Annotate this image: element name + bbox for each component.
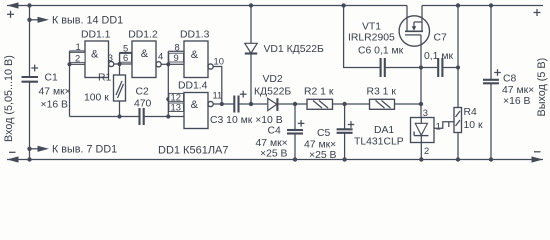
node top rail input (27, 3, 31, 7)
pin 2 lead with label box (70, 52, 86, 64)
node gate junction on C6 line (419, 65, 423, 69)
svg-text:11: 11 (213, 90, 223, 101)
capacitor C6 (381, 58, 421, 77)
pin 3 output bubble (109, 61, 114, 66)
svg-text:VT1: VT1 (362, 22, 381, 33)
svg-text:Выход (5 В): Выход (5 В) (536, 58, 548, 117)
transistor VT1 (399, 6, 429, 68)
svg-text:9: 9 (174, 52, 179, 63)
svg-text:×16 В: ×16 В (503, 96, 531, 107)
node branch to pin 14 (27, 18, 31, 22)
node R1 top junction (117, 62, 121, 66)
node R4 bottom (456, 157, 460, 161)
capacitor C2 (140, 108, 144, 125)
svg-text:К выв. 14 DD1: К выв. 14 DD1 (52, 14, 123, 26)
resistor R4 trimmer (454, 108, 462, 160)
svg-text:C4: C4 (268, 126, 282, 137)
node bottom rail input (27, 157, 31, 161)
node pins 1-2 tie (67, 62, 71, 66)
node VD1 top rail (249, 3, 253, 7)
svg-text:IRLR2905: IRLR2905 (348, 33, 395, 44)
svg-text:TL431CLP: TL431CLP (354, 137, 404, 148)
node C6 top rail (341, 3, 345, 7)
svg-text:47 мк×: 47 мк× (304, 140, 336, 151)
pin 1 lead (70, 50, 86, 52)
svg-text:1: 1 (76, 41, 81, 52)
diode VD2 (268, 98, 307, 111)
pin 6 label box (120, 52, 132, 63)
svg-text:&: & (191, 99, 199, 111)
node C7 right junction (456, 65, 460, 69)
svg-text:DD1.1: DD1.1 (81, 29, 111, 40)
svg-text:DD1.2: DD1.2 (128, 29, 158, 40)
svg-text:6: 6 (123, 52, 128, 63)
svg-text:С6 0,1 мк: С6 0,1 мк (358, 46, 404, 57)
wire bottom rail (7, 156, 543, 162)
node R4 top rail (456, 3, 460, 7)
node gate-R3 junction (419, 102, 423, 106)
wire top rail left segment with input arrow (7, 2, 407, 8)
wire arrow to pin 7 DD1 (30, 146, 50, 152)
node C8 bottom (489, 157, 493, 161)
svg-text:R1: R1 (98, 73, 112, 84)
svg-text:К выв. 7 DD1: К выв. 7 DD1 (52, 144, 117, 156)
plus sign input top-left (7, 11, 14, 18)
svg-text:47 мк×: 47 мк× (502, 85, 534, 96)
minus sign bottom-left (9, 151, 16, 153)
node C4 bottom (293, 157, 297, 161)
svg-text:&: & (91, 48, 99, 60)
gate DD1.4 (178, 81, 208, 129)
wire top rail right segment with output arrow (422, 5, 543, 7)
capacitor C7 (421, 58, 458, 77)
pin 5 lead (120, 43, 133, 65)
diode VD1 (245, 6, 257, 105)
svg-text:470: 470 (134, 99, 152, 110)
svg-text:13: 13 (171, 101, 181, 112)
wire DA1 cathode pin 2 (420, 143, 422, 160)
svg-text:C7: C7 (434, 33, 448, 44)
wire DD1.3/DD1.4 input bus (167, 51, 169, 116)
node C4 junction (293, 102, 297, 106)
svg-text:DD1 К561ЛА7: DD1 К561ЛА7 (158, 145, 229, 157)
svg-text:DA1: DA1 (374, 125, 394, 136)
svg-text:C8: C8 (503, 74, 517, 85)
svg-text:R4: R4 (464, 107, 478, 118)
svg-text:VD1 КД522Б: VD1 КД522Б (264, 44, 325, 55)
node VD1 bottom junction (249, 102, 253, 106)
wire DD1.1 out to DD1.2 in (114, 63, 132, 65)
svg-text:C5: C5 (317, 128, 331, 139)
svg-text:3: 3 (108, 52, 113, 63)
wire DA1 ref pin 1 to R4 wiper (434, 122, 454, 129)
gate DD1.1 (81, 29, 111, 77)
node DA1 bottom (419, 157, 423, 161)
capacitor C3 (234, 91, 246, 113)
pin 4 output bubble (156, 62, 161, 67)
svg-text:КД522Б: КД522Б (254, 87, 291, 98)
svg-text:DD1.4: DD1.4 (178, 81, 208, 92)
pin 9 lead with label box (168, 52, 184, 64)
capacitor C1 (22, 65, 39, 82)
node C5 bottom (342, 157, 346, 161)
wire input tie bus DD1.1 (69, 51, 71, 117)
wire gate column (420, 68, 422, 118)
wire input vertical column (29, 6, 31, 78)
svg-text:0,1 мк: 0,1 мк (424, 51, 453, 62)
svg-text:47 мк×: 47 мк× (39, 87, 71, 98)
svg-text:R2 1 к: R2 1 к (304, 86, 334, 97)
node R1 bottom (117, 114, 121, 118)
svg-text:8: 8 (175, 41, 180, 52)
svg-text:C2: C2 (136, 87, 150, 98)
chip DA1 TL431 (411, 118, 435, 143)
wire C3 to VD2 (239, 103, 268, 105)
capacitor C8 (483, 6, 501, 160)
wire C6 branch (344, 6, 380, 68)
svg-text:2: 2 (75, 52, 80, 63)
node branch to pin 7 (27, 147, 31, 151)
capacitor C5 (337, 104, 355, 160)
wire oscillator bottom line (70, 116, 139, 118)
svg-text:×25 В: ×25 В (309, 150, 337, 161)
svg-text:С3 10 мк ×10 В: С3 10 мк ×10 В (210, 115, 283, 126)
wire DD1.4 out (213, 103, 233, 105)
plus sign output top-right (534, 9, 541, 16)
minus sign bottom-right (534, 151, 541, 153)
svg-text:R3 1 к: R3 1 к (367, 86, 397, 97)
node C8 top rail (489, 3, 493, 7)
node pin 13 tie (166, 114, 170, 118)
capacitor C4 (287, 104, 304, 160)
svg-text:2: 2 (424, 145, 429, 156)
node outputs junction (220, 102, 224, 106)
pin 11 output bubble (208, 101, 213, 106)
svg-text:100 к: 100 к (84, 93, 109, 104)
svg-text:×16 В: ×16 В (41, 100, 69, 111)
node C5 junction (342, 102, 346, 106)
node pin 12 tie (166, 97, 170, 101)
svg-text:&: & (141, 48, 149, 60)
svg-text:1: 1 (436, 121, 441, 132)
svg-text:Вход (5,05...10 В): Вход (5,05...10 В) (3, 55, 15, 142)
wire R4 column upper (457, 6, 459, 108)
wire DD1.3 out down to output node (213, 67, 222, 105)
resistor R2 (307, 99, 370, 109)
svg-text:&: & (191, 49, 199, 61)
wire arrow to pin 14 DD1 (30, 17, 50, 23)
gate DD1.3 (180, 30, 210, 78)
svg-text:47 мк×: 47 мк× (256, 138, 288, 149)
pin 12 lead with label box (168, 92, 184, 103)
pin 10 output bubble (208, 64, 213, 69)
node DD1.3 input bus top (166, 62, 170, 66)
svg-text:DD1.3: DD1.3 (180, 30, 210, 41)
svg-text:10 к: 10 к (464, 120, 483, 131)
gate DD1.2 (128, 29, 158, 77)
resistor R3 (370, 99, 422, 109)
wire DD1.2 out to bus (161, 63, 168, 65)
pin 13 lead with label box (168, 101, 184, 116)
svg-text:C1: C1 (45, 73, 59, 84)
resistor R1 (114, 64, 126, 117)
pin 8 lead (168, 41, 184, 52)
svg-text:10: 10 (214, 55, 224, 66)
svg-text:4: 4 (158, 51, 163, 62)
svg-text:×25 В: ×25 В (260, 149, 288, 160)
svg-text:VD2: VD2 (263, 74, 283, 85)
svg-text:3: 3 (423, 107, 428, 118)
